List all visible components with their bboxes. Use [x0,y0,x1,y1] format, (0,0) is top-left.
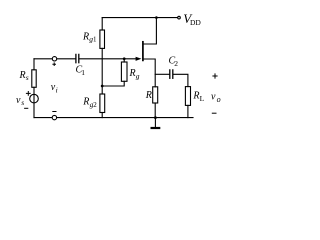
transistor Q1 gate arrow [136,57,142,61]
wire corner to input terminal [34,58,52,60]
wire bottom rail right [57,117,193,119]
minus sign vi [52,111,56,113]
svg-text:R: R [19,70,26,81]
label Rg [129,68,140,80]
wire R bottom stub [154,103,156,118]
capacitor C1 [75,54,77,62]
svg-text:L: L [200,94,205,103]
plus sign vi [52,62,56,66]
label VDD [183,11,201,27]
node VDD terminal [178,16,181,19]
capacitor C2 [169,70,171,78]
resistor R [153,87,158,103]
svg-text:1: 1 [93,36,97,44]
label Rs [19,70,29,82]
plus sign vo [212,73,217,78]
wire Rg top stub to gate [123,59,125,62]
svg-text:o: o [217,95,221,104]
svg-text:R: R [192,91,199,102]
svg-text:v: v [211,91,216,102]
svg-text:2: 2 [174,59,178,68]
svg-text:s: s [21,98,24,107]
label Rg2 [82,97,97,109]
svg-text:v: v [16,95,21,106]
transistor Q1 channel bar [142,42,144,61]
svg-text:R: R [145,90,152,101]
node input - terminal [52,115,56,119]
svg-text:R: R [82,97,89,108]
label vi [51,82,58,94]
label vo [211,91,221,104]
wire bottom rail left [34,117,52,119]
wire left branch: corner down through Rs and vs to rail [33,59,35,70]
wire Rg2 bottom stub [101,113,103,118]
label vs [16,95,24,107]
svg-text:g: g [136,72,140,81]
wire source node to C2 [155,73,169,75]
node divider junction [101,85,104,88]
wire Rs bottom through source to rail corner [33,87,35,117]
svg-text:2: 2 [93,101,97,109]
resistor RL [185,87,190,106]
label C2 [169,56,179,68]
wire C2 to RL [173,74,188,86]
svg-text:1: 1 [81,68,85,77]
wire drain tap [144,18,157,44]
minus sign vs [24,107,28,109]
source vs circle [30,94,39,103]
svg-text:R: R [82,31,89,42]
resistor Rg [121,62,127,81]
resistor Rg1 [100,30,105,48]
wire RL bottom stub [187,105,189,117]
svg-text:DD: DD [190,18,201,27]
wire Rg1 bottom to divider junction (crosses gate wire, no dot) [101,48,103,86]
wire Rg1 top stub [101,18,103,30]
node drain-rail junction [155,16,158,19]
wire source tap down to R [144,59,156,87]
wire junction to Rg bottom [102,81,124,86]
svg-text:s: s [26,73,29,82]
label RL [192,91,204,103]
node input + terminal [52,57,56,61]
minus sign vo [212,112,217,114]
plus sign vs [26,91,31,96]
ground [154,118,156,127]
node ground junction [154,116,157,119]
label Rg1 [82,31,97,43]
resistor Rg2 [100,94,105,113]
svg-text:i: i [56,85,58,94]
label C1 [76,65,86,77]
node Rg-gate tee [123,57,126,60]
wire input top: terminal to C1 [57,58,76,60]
resistor Rs [32,70,36,88]
wire gate: C1 to JFET gate arrow [79,58,136,60]
svg-text:R: R [129,68,136,79]
wire junction to Rg2 [101,86,103,94]
wire top rail VDD [102,17,178,19]
